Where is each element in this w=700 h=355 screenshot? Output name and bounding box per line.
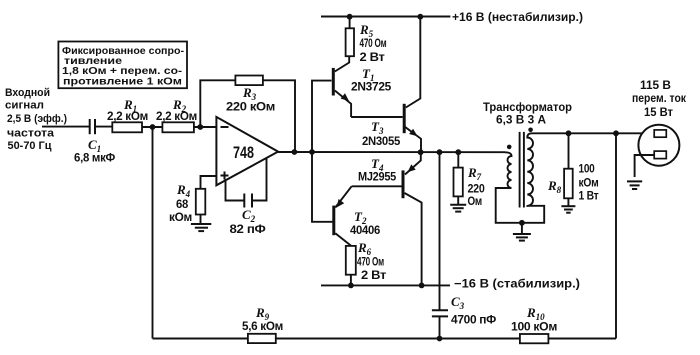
ground below transformer <box>521 223 523 234</box>
svg-text:15 Вт: 15 Вт <box>644 107 673 119</box>
svg-text:2N3725: 2N3725 <box>351 80 392 94</box>
ground below R4 <box>191 215 211 232</box>
core <box>519 132 521 208</box>
node C3 bottom <box>437 336 443 342</box>
op-amp U1 748 <box>216 117 278 185</box>
svg-text:470 Ом: 470 Ом <box>360 36 387 50</box>
wire non-inverting input <box>201 176 217 189</box>
svg-text:кОм: кОм <box>169 210 192 224</box>
svg-text:748: 748 <box>233 143 254 162</box>
+16V rail <box>321 10 583 24</box>
transistor T1 2N3725 <box>333 56 391 117</box>
primary phase dot <box>507 145 512 150</box>
svg-text:115 В: 115 В <box>640 80 671 92</box>
wire R1 to R2 <box>142 126 162 128</box>
output node of push-pull <box>418 149 424 155</box>
top secondary rail <box>532 132 655 134</box>
transistor T3 2N3055 <box>351 17 421 153</box>
svg-text:1 Вт: 1 Вт <box>579 189 599 203</box>
svg-text:82 пФ: 82 пФ <box>230 222 266 236</box>
node out1 (feedback) <box>292 149 298 155</box>
capacitor C3 <box>432 294 496 339</box>
node R7 <box>455 149 461 155</box>
svg-text:MJ2955: MJ2955 <box>358 170 397 184</box>
secondary phase dot <box>528 128 533 133</box>
resistor R8 <box>547 133 599 202</box>
svg-text:−16 В (стабилизир.): −16 В (стабилизир.) <box>454 277 580 291</box>
wire input <box>42 126 89 128</box>
svg-text:2,5 В (эфф.): 2,5 В (эфф.) <box>7 113 67 125</box>
svg-text:220 кОм: 220 кОм <box>226 100 275 114</box>
capacitor C2 loop <box>226 159 267 237</box>
node right drop <box>613 130 619 136</box>
input signal text <box>5 87 67 152</box>
AC plug labels <box>632 80 686 119</box>
feedback wire with resistor R3 <box>200 76 295 152</box>
node out2 (driver bases) <box>309 149 315 155</box>
svg-text:6,8 мкФ: 6,8 мкФ <box>74 151 115 165</box>
resistor R1 <box>107 97 148 132</box>
transistor T2 40406 <box>334 186 381 246</box>
resistor R2 <box>156 97 197 132</box>
svg-text:+16 В (нестабилизир.): +16 В (нестабилизир.) <box>452 10 583 24</box>
transformer <box>483 102 572 241</box>
svg-text:100 кОм: 100 кОм <box>511 320 557 334</box>
svg-text:противление 1 кОм: противление 1 кОм <box>63 76 182 88</box>
AC plug <box>635 125 680 177</box>
ground below R7 <box>450 196 466 211</box>
transistor T4 MJ2955 <box>352 152 422 285</box>
svg-text:2,2 кОм: 2,2 кОм <box>156 109 197 123</box>
svg-text:470 Ом: 470 Ом <box>357 255 384 269</box>
svg-text:Трансформатор: Трансформатор <box>483 102 572 114</box>
primary winding <box>496 152 545 223</box>
transformer ground node <box>519 220 525 226</box>
svg-text:перем. ток: перем. ток <box>632 93 686 105</box>
left vertical wire <box>152 127 154 339</box>
node R8 top <box>566 130 572 136</box>
svg-text:2N3055: 2N3055 <box>362 134 401 148</box>
wire C1 to R1 <box>95 126 112 128</box>
output wire of op-amp <box>278 151 505 153</box>
svg-text:сигнал: сигнал <box>5 100 44 112</box>
svg-text:Входной: Входной <box>5 87 50 99</box>
resistor R5 <box>346 17 387 64</box>
capacitor C1 <box>74 119 115 165</box>
svg-text:40406: 40406 <box>350 223 381 237</box>
ground below R8 <box>561 198 575 212</box>
resistor R7 <box>454 152 486 208</box>
bottom feedback wire <box>153 338 617 340</box>
secondary winding <box>527 133 533 206</box>
right vertical wire <box>615 133 617 338</box>
svg-text:2 Вт: 2 Вт <box>361 268 386 282</box>
svg-text:5,6 кОм: 5,6 кОм <box>242 319 283 333</box>
resistor R6 <box>346 240 387 285</box>
wire R2 to op-amp inverting input <box>194 126 217 128</box>
node A <box>150 124 156 130</box>
svg-text:частота: частота <box>7 128 55 140</box>
svg-text:6,3 В 3 А: 6,3 В 3 А <box>496 115 546 127</box>
ground below plug <box>627 181 642 189</box>
resistor R4 <box>169 182 205 224</box>
node C3 top <box>437 149 443 155</box>
-16V rail <box>321 277 580 291</box>
svg-text:100: 100 <box>579 162 596 176</box>
wire to T1 base <box>312 81 332 152</box>
note box: fixed resistance annotation <box>58 42 187 89</box>
resistor R10 <box>511 305 557 343</box>
wire to T2 base <box>312 152 333 222</box>
svg-text:2 Вт: 2 Вт <box>360 50 385 64</box>
resistor R9 <box>242 305 283 343</box>
svg-text:Ом: Ом <box>468 194 483 208</box>
svg-text:2,2 кОм: 2,2 кОм <box>107 109 148 123</box>
node B <box>197 124 203 130</box>
svg-text:4700 пФ: 4700 пФ <box>451 313 496 327</box>
svg-text:кОм: кОм <box>579 176 599 190</box>
svg-text:68: 68 <box>176 197 189 211</box>
wire output to C3 <box>439 152 441 310</box>
svg-text:50-70 Гц: 50-70 Гц <box>8 140 52 152</box>
